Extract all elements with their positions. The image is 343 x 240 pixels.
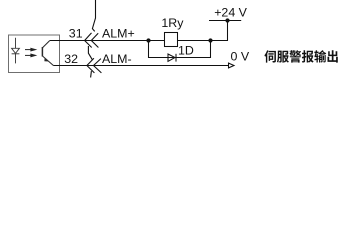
svg-text:+24 V: +24 V	[214, 5, 247, 19]
net label ALM+	[102, 26, 135, 40]
svg-text:0 V: 0 V	[231, 50, 250, 64]
pin label 32	[64, 52, 78, 66]
connector break (middle segment)	[88, 46, 92, 60]
svg-text:31: 31	[69, 26, 83, 40]
connector chevrons on ALM- wire	[87, 58, 102, 73]
label 1D	[178, 44, 194, 58]
pin label 31	[69, 26, 83, 40]
svg-text:1D: 1D	[178, 44, 194, 58]
LED D1 (inside optocoupler)	[12, 38, 20, 64]
diode 1D	[168, 54, 176, 62]
svg-text:1Ry: 1Ry	[161, 16, 184, 30]
light arrows (optocoupler)	[25, 48, 36, 56]
connector break (top segment)	[92, 0, 95, 31]
junction dot right (ALM+ / diode branch)	[208, 38, 212, 42]
net label ALM-	[102, 52, 132, 66]
connector chevrons on ALM+ wire	[85, 33, 99, 48]
connector break (bottom segment)	[90, 71, 93, 77]
svg-text:ALM+: ALM+	[102, 26, 135, 40]
optocoupler U1 box	[9, 35, 60, 73]
+24V supply rail	[209, 20, 241, 22]
junction dot at +24V rail	[225, 18, 229, 22]
wire ALM+ (pin 31 to relay)	[50, 40, 165, 42]
relay coil 1Ry	[165, 33, 178, 47]
label servo alarm output (Chinese)	[264, 50, 337, 63]
label 0 V	[231, 50, 250, 64]
phototransistor Q1	[42, 41, 53, 66]
flyback diode branch wires	[149, 41, 211, 58]
label +24 V	[214, 5, 247, 19]
svg-text:ALM-: ALM-	[102, 52, 132, 66]
0V open arrowhead	[229, 63, 235, 68]
wire ALM- (pin 32 to 0V)	[53, 65, 228, 67]
junction dot left (ALM+ / diode branch)	[146, 38, 150, 42]
wire relay to +24V corner	[177, 21, 228, 41]
svg-text:32: 32	[64, 52, 78, 66]
label 1Ry	[161, 16, 184, 30]
